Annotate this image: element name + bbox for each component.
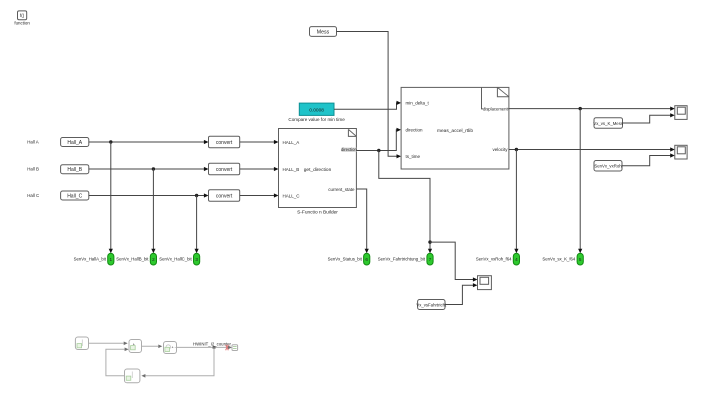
outport 4 SenVx_vxRoh_f64	[476, 253, 520, 265]
svg-text:direction: direction	[406, 127, 424, 132]
node Hall A label	[27, 140, 39, 145]
faded block F2 sum	[129, 340, 142, 353]
wire Hall_A to convert1	[89, 140, 209, 144]
block meas_accel_rtlib	[401, 87, 509, 169]
svg-text:SenVx_vxRoh: SenVx_vxRoh	[594, 164, 622, 169]
svg-text:4: 4	[515, 257, 518, 262]
block S-Function Builder get_direction	[279, 129, 357, 216]
wire displacement to scope1 input1	[509, 107, 675, 111]
svg-text:convert: convert	[216, 167, 233, 173]
outport 3 SenVx_HallC_bit	[159, 253, 199, 265]
svg-text:S-Functio n Builder: S-Functio n Builder	[297, 210, 338, 216]
svg-text:5: 5	[579, 257, 582, 262]
svg-text:ts_time: ts_time	[406, 154, 421, 159]
svg-text:Hall_B: Hall_B	[67, 167, 82, 173]
wire direction output to direction input of meas block	[356, 128, 401, 151]
faded block F1 source	[75, 337, 88, 350]
faded block F3 feedback	[125, 369, 140, 383]
junction direction branch	[377, 149, 380, 152]
junction Hall_B branch	[152, 167, 155, 170]
junction Fahrtrichtung branch	[428, 240, 431, 243]
wire Hall_C to convert3	[89, 193, 209, 197]
svg-text:direction: direction	[341, 147, 357, 152]
faded wire F3 to F2 input2	[106, 348, 129, 376]
red broken-link mark	[226, 345, 229, 350]
faded junction	[213, 346, 216, 349]
wire Hall_A branch down to outport 1	[109, 142, 113, 253]
svg-text:Hall B: Hall B	[27, 167, 39, 172]
svg-text:Compare value for min time: Compare value for min time	[288, 117, 345, 122]
svg-text:SenVx_HallB_bit: SenVx_HallB_bit	[116, 257, 149, 262]
svg-text:SenVx_HallC_bit: SenVx_HallC_bit	[159, 257, 192, 262]
wire Mess to ts_time	[337, 32, 402, 159]
svg-text:Hall_A: Hall_A	[67, 140, 82, 146]
faded label HWINIT_I2_counter	[193, 341, 232, 346]
junction velocity branch	[515, 148, 518, 151]
svg-text:HALL_A: HALL_A	[283, 140, 300, 145]
S-Function dog-ear badge	[348, 129, 356, 136]
svg-text:Mess: Mess	[317, 30, 330, 36]
svg-text:meas_accel_rtlib: meas_accel_rtlib	[437, 128, 473, 134]
junction Hall_A branch	[109, 140, 112, 143]
svg-text:1: 1	[110, 257, 113, 262]
faded wire F2 to F4	[142, 345, 163, 349]
wire displacement branch down to outport sx_K	[578, 109, 582, 254]
wire current_state to outport Status	[356, 189, 368, 253]
svg-text:Hall C: Hall C	[27, 193, 39, 198]
svg-text:get_direction: get_direction	[304, 167, 332, 173]
direction port label	[341, 147, 357, 152]
scope U3	[478, 276, 492, 290]
block Vx_vs_K_Mess	[593, 118, 623, 129]
svg-text:displacement: displacement	[483, 106, 509, 111]
wire convert2 to HALL_B	[240, 167, 279, 171]
outport 1 SenVx_HallA_bit	[74, 253, 114, 265]
outport 2 SenVx_HallB_bit	[116, 253, 156, 265]
wire Hall_B to convert2	[89, 167, 209, 171]
block Hall_B	[61, 165, 89, 174]
svg-text:convert: convert	[216, 193, 233, 199]
node Hall C label	[27, 193, 39, 198]
outport 7 SenVx_Fahrtrichtung_bit	[378, 253, 433, 265]
svg-text:SenVx_vxRoh_f64: SenVx_vxRoh_f64	[476, 257, 512, 262]
meas block displacement label box and dog-ear badge	[482, 87, 509, 111]
svg-text:Vx_vsFahrtricht: Vx_vsFahrtricht	[416, 302, 447, 307]
faded feedback wire junction to F3	[141, 347, 214, 377]
wire convert3 to HALL_C	[240, 193, 279, 197]
svg-text:SenVx_sx_K_f64: SenVx_sx_K_f64	[542, 257, 576, 262]
block Mess	[310, 27, 337, 37]
wire constant to min_delta_t	[334, 101, 401, 110]
svg-text:convert: convert	[216, 140, 233, 146]
wire velocity branch down to outport vxRoh	[514, 150, 518, 254]
junction Hall_C branch	[195, 194, 198, 197]
svg-text:function: function	[14, 20, 30, 25]
svg-text:Vx_vs_K_Mess: Vx_vs_K_Mess	[593, 121, 623, 126]
wire Vx_vs_K_Mess to scope1 input2	[623, 113, 675, 123]
svg-text:SenVx_Fahrtrichtung_bit: SenVx_Fahrtrichtung_bit	[378, 257, 426, 262]
svg-text:HALL_C: HALL_C	[283, 194, 301, 199]
svg-text:Hall A: Hall A	[27, 140, 39, 145]
block Hall_A	[61, 138, 89, 147]
block convert1	[209, 136, 240, 148]
outport 6 SenVx_Status_bit	[328, 253, 370, 265]
wire convert1 to HALL_A	[240, 140, 279, 144]
faded block F4 delay	[164, 342, 177, 354]
block Hall_C	[61, 191, 89, 200]
faded wire F1 to F2	[89, 342, 128, 346]
svg-text:Hall_C: Hall_C	[67, 193, 82, 199]
block SenVx_vxRoh	[594, 161, 622, 172]
block convert3	[209, 190, 240, 202]
faded terminator block F5	[232, 345, 238, 351]
function block f()	[14, 11, 30, 26]
svg-text:0.0008: 0.0008	[309, 107, 324, 113]
svg-text:current_state: current_state	[328, 187, 355, 192]
svg-text:2: 2	[152, 257, 155, 262]
block Vx_vsFahrtricht	[416, 300, 447, 310]
wire Fahrtrichtung branch to scope3 input1	[430, 242, 478, 282]
svg-text:min_delta_t: min_delta_t	[406, 100, 430, 105]
scope U2	[675, 145, 687, 159]
svg-text:6: 6	[365, 257, 368, 262]
junction displacement branch	[579, 107, 582, 110]
block convert2	[209, 163, 240, 175]
wire Vx_vsFahrtricht to scope3 input2	[445, 283, 478, 304]
svg-text:f(): f()	[20, 13, 25, 18]
scope U1	[675, 106, 687, 120]
outport 5 SenVx_sx_K_f64	[542, 253, 583, 265]
wire velocity to scope2 input1	[509, 147, 675, 151]
svg-text:velocity: velocity	[492, 147, 508, 152]
svg-text:SenVx_Status_bit: SenVx_Status_bit	[328, 257, 363, 262]
wire Hall_B branch down to outport 2	[151, 169, 155, 253]
wire Hall_C branch down to outport 3	[195, 196, 199, 254]
svg-text:SenVx_HallA_bit: SenVx_HallA_bit	[74, 257, 107, 262]
wire SenVx_vxRoh to scope2 input2	[622, 153, 675, 165]
svg-text:HALL_B: HALL_B	[283, 167, 300, 172]
wire direction branch down-right to Fahrtrichtung	[379, 151, 432, 254]
svg-text:3: 3	[195, 257, 198, 262]
constant 0.0008 Compare value for min time	[288, 103, 345, 122]
node Hall B label	[27, 167, 39, 172]
svg-text:7: 7	[429, 257, 432, 262]
faded wire F4 to terminator	[177, 346, 233, 350]
